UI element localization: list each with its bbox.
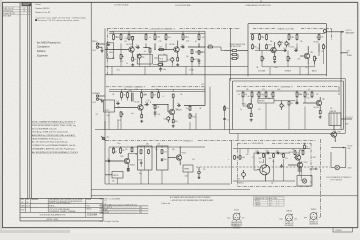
svg-text:Supreme: Supreme [37, 53, 48, 57]
wire link to mixer [214, 47, 224, 51]
potentiometer VR6 [120, 111, 124, 117]
capacitor C9a [107, 158, 111, 162]
svg-text:BC149: BC149 [135, 102, 140, 104]
drawing number strip bottom right [333, 228, 352, 232]
svg-text:TR3: TR3 [268, 45, 271, 47]
svg-text:22k: 22k [180, 94, 183, 96]
wire depth box drop [117, 178, 119, 184]
svg-text:8µ: 8µ [177, 103, 179, 105]
svg-text:8µ: 8µ [181, 44, 183, 46]
transistor TR2 [173, 46, 183, 53]
svg-text:ERITH · KENT: ERITH · KENT [47, 219, 60, 221]
wire channel1 supply drop [204, 31, 206, 87]
wire supreme outer box link down [237, 134, 239, 141]
svg-text:22k: 22k [316, 94, 319, 96]
transistor TR5 [137, 104, 147, 111]
svg-text:470: 470 [258, 109, 261, 111]
svg-text:SUPREME ③: SUPREME ③ [281, 86, 293, 89]
revision column marks [23, 7, 30, 13]
junction dots supreme [252, 91, 313, 92]
resistor R40 [311, 91, 313, 98]
wire TR4 emitter to rail [307, 64, 309, 75]
wire TR5 collector [141, 99, 143, 104]
svg-text:BC149: BC149 [170, 44, 175, 46]
capacitor C5 [294, 48, 298, 52]
wire TR3 collector [274, 42, 276, 46]
footswitch loop wire [331, 147, 346, 168]
svg-text:O/P ②: O/P ② [201, 83, 206, 86]
feedback network box channel1 [159, 55, 168, 61]
svg-text:25µ: 25µ [107, 137, 110, 139]
svg-text:CH 1: CH 1 [92, 50, 96, 52]
resistor R50 [294, 150, 299, 155]
svg-text:TR4: TR4 [310, 52, 313, 54]
wire osc feedback b [254, 169, 257, 171]
voltage table [99, 206, 148, 214]
notes line 9 [32, 147, 75, 150]
transistor legend table [254, 197, 285, 207]
wire lamp to zener [298, 171, 300, 176]
wire mixer feed [224, 50, 231, 52]
resistor R8 [198, 34, 200, 41]
svg-text:ORGAN/AMPL, AMPLIFIC other B5.: ORGAN/AMPL, AMPLIFIC other B5. Plug B5 p… [32, 147, 75, 150]
svg-text:MRB SW: MRB SW [330, 111, 337, 113]
svg-text:2.2k: 2.2k [159, 41, 162, 43]
resistor R2 [120, 34, 122, 41]
svg-text:50µ: 50µ [107, 115, 110, 117]
resistor R34 [189, 106, 191, 111]
svg-text:TR11: TR11 [259, 162, 263, 164]
wire supreme drops extra [266, 103, 305, 130]
capacitor C7a on drop [154, 113, 160, 117]
svg-text:22k: 22k [306, 94, 309, 96]
title block material cell [31, 198, 38, 204]
svg-text:47k: 47k [290, 103, 293, 105]
svg-text:the M60 Preamp for: the M60 Preamp for [37, 40, 61, 44]
svg-text:470k: 470k [116, 37, 120, 39]
resistor R11 [149, 48, 151, 53]
pinout diagram 2N3702 [280, 210, 298, 226]
svg-text:BC149: BC149 [234, 209, 239, 211]
capacitor C9b in box1 [140, 159, 142, 167]
capacitor C3b right stack [198, 59, 201, 67]
svg-text:DRN: DRN [21, 199, 24, 201]
svg-text:NORMAL: NORMAL [92, 92, 100, 95]
notes line 6 [32, 137, 63, 140]
svg-text:22k: 22k [158, 144, 161, 146]
wire pot feeds stage2 [262, 51, 315, 65]
wire R11 bottom drop [149, 53, 151, 66]
svg-text:3.9k: 3.9k [125, 38, 128, 40]
svg-text:Resistors ¼W 5% unless otherwi: Resistors ¼W 5% unless otherwise stated [38, 19, 79, 22]
resistor R43 [120, 147, 125, 154]
resistor R8a sym [157, 62, 163, 65]
resistor R33 [172, 119, 177, 123]
svg-text:VOX SOUND EQUIPMENT LTD: VOX SOUND EQUIPMENT LTD [40, 215, 66, 217]
svg-text:0.05: 0.05 [283, 48, 286, 50]
switch relay box [329, 111, 341, 126]
svg-text:CONNECTOR, to EXTERNAL PREAMPS: CONNECTOR, to EXTERNAL PREAMPS, Link B5 [32, 144, 75, 147]
revision strip column line C [29, 2, 31, 198]
svg-text:0.5: 0.5 [144, 51, 146, 53]
output arrow row3 [310, 166, 318, 170]
label supreme values [247, 96, 319, 110]
svg-text:47k: 47k [330, 108, 333, 110]
svg-text:560: 560 [175, 121, 178, 123]
ground [101, 100, 104, 103]
ground [250, 119, 253, 122]
svg-text:base: base [280, 219, 283, 221]
capacitor C2a bypass [138, 54, 144, 61]
notes line 5 [32, 134, 76, 137]
volume module box channel1 [137, 54, 152, 64]
svg-text:2N3702: 2N3702 [238, 182, 244, 184]
label tremolo values [115, 144, 161, 154]
ground [101, 50, 104, 53]
svg-text:b c e: b c e [269, 200, 272, 202]
supreme dashed boundary [237, 87, 339, 95]
svg-text:25k: 25k [112, 181, 115, 183]
svg-text:OSCILLATOR: OSCILLATOR [252, 142, 264, 145]
wire supply links channel2 [122, 89, 174, 91]
output label O/P [346, 30, 356, 34]
resistor R51 [302, 150, 304, 155]
wire tremolo rail left link [108, 147, 110, 184]
svg-text:10k: 10k [168, 37, 171, 39]
transistor TR6a sym [242, 102, 253, 109]
resistor R39 [304, 91, 309, 98]
svg-text:VIEWED ON: VIEWED ON [309, 221, 318, 223]
revision table header cell [22, 3, 32, 6]
wire relay down [333, 126, 335, 131]
resistor R51a sym [234, 155, 240, 160]
wire speed box drop [187, 172, 189, 184]
svg-text:8µ: 8µ [281, 42, 283, 44]
svg-text:BRILL: BRILL [92, 41, 97, 43]
wire pot bottoms to rail stage2 [262, 61, 315, 75]
svg-text:O/P: O/P [311, 166, 314, 168]
resistor R5 [154, 34, 160, 41]
svg-text:BC149: BC149 [314, 42, 319, 44]
wire TR9 collector to box1 [128, 153, 137, 155]
svg-text:① MOUNTING FOR STANDARDISED PR: ① MOUNTING FOR STANDARDISED PRE AMP BOAR… [170, 199, 214, 202]
title block copyright text [49, 198, 83, 204]
supply rail stage 2 [250, 33, 325, 35]
capacitor C4b electrolytic [285, 41, 288, 47]
svg-text:DEFIANT CHANNEL ②: DEFIANT CHANNEL ② [125, 86, 146, 89]
supreme box outline [233, 81, 344, 130]
tremolo assembly box 1 [138, 146, 153, 170]
svg-text:DO NOT SCALE: DO NOT SCALE [114, 4, 129, 7]
svg-text:TR9: TR9 [120, 156, 123, 158]
svg-text:0.1: 0.1 [252, 157, 254, 159]
wire TR12 base [288, 164, 296, 166]
svg-text:TO FOOT: TO FOOT [346, 117, 353, 119]
oscillator wire top [254, 152, 290, 154]
output node circle [323, 30, 326, 33]
resistor R10 [132, 57, 136, 62]
revision table row lines [2, 7, 31, 15]
wire VR1 bottom to ground rail [120, 59, 122, 67]
supreme outer box outline [230, 79, 346, 134]
svg-text:56k: 56k [124, 41, 127, 43]
voltage table row 2 [101, 209, 143, 212]
wire base TR5 [115, 107, 137, 109]
wire supreme coupling [274, 100, 295, 102]
ground [140, 120, 143, 123]
transistor TR12 [296, 161, 307, 168]
svg-text:100k: 100k [241, 157, 245, 159]
svg-text:0.5: 0.5 [308, 89, 310, 91]
resistor R48 [273, 153, 275, 158]
capacitor C8 [177, 103, 181, 107]
revision strip column line D [30, 2, 32, 198]
wire TR1 collector [132, 41, 134, 46]
capacitor C3a emitter bypass [167, 57, 174, 63]
supply bus upper channel 1 [109, 30, 205, 32]
notes line 10 [32, 151, 79, 154]
svg-text:1k: 1k [256, 94, 258, 96]
schematic bottom border [91, 189, 250, 191]
svg-text:N.F.B: N.F.B [159, 58, 163, 60]
svg-text:J1: J1 [108, 56, 110, 58]
transistor TR7 [315, 99, 325, 107]
resistor R50b sym [304, 145, 308, 150]
svg-text:With 1% diode X-tal filter: With 1% diode X-tal filter [99, 220, 119, 223]
resistor R35a [242, 91, 247, 98]
wire stage2 coupling [255, 50, 283, 52]
wire supreme inner drops [243, 98, 305, 106]
resistor R32 [172, 94, 174, 98]
svg-text:10k: 10k [268, 98, 271, 100]
svg-text:CH 2: CH 2 [92, 102, 96, 104]
oscillator dashed boundary [238, 143, 312, 186]
svg-text:1k: 1k [325, 47, 327, 49]
resistor R26 [127, 92, 129, 99]
revision strip column line A [19, 2, 21, 198]
wire depth box left [105, 174, 112, 176]
transistor TR10 [175, 153, 186, 162]
wire box2 drop to bottom rail [161, 170, 163, 184]
resistor R36a sym [250, 113, 252, 117]
svg-text:CONQUEROR CHANNEL ①: CONQUEROR CHANNEL ① [150, 27, 176, 30]
supply rail channel 2 [109, 91, 205, 93]
capacitor C1 [107, 42, 111, 46]
svg-text:3.9k: 3.9k [144, 94, 147, 96]
svg-text:47k: 47k [202, 37, 205, 39]
wire base TR4 [300, 55, 303, 57]
resistor R3 [128, 34, 134, 41]
wire output bus vertical [340, 32, 342, 130]
resistor R16 [231, 54, 238, 56]
svg-text:56k: 56k [270, 41, 273, 43]
svg-text:100µ: 100µ [117, 143, 121, 145]
svg-text:150k: 150k [268, 158, 272, 160]
resistor R27 [141, 92, 147, 99]
label osc rail values [256, 150, 288, 160]
svg-text:220k: 220k [208, 45, 212, 47]
ground [176, 63, 179, 66]
svg-text:0.1: 0.1 [276, 150, 278, 152]
wire TR9 collector [127, 154, 129, 158]
wire drops channel2 [118, 101, 190, 129]
resistor R14 [191, 49, 193, 54]
svg-text:SW: SW [346, 124, 349, 126]
resistor R19 [259, 34, 264, 41]
input network box channel1 [107, 43, 114, 59]
svg-text:TREMOLO: TREMOLO [183, 141, 193, 143]
voltage table row 1 [101, 207, 143, 209]
svg-text:WITHOUT WRITTEN PERMISSION: WITHOUT WRITTEN PERMISSION [49, 202, 71, 204]
wire resistor drops to rail [264, 159, 302, 181]
oscillator left components [228, 155, 240, 161]
depth control box [112, 172, 123, 179]
svg-text:47k: 47k [244, 94, 247, 96]
capacitor C12 [266, 150, 270, 154]
svg-text:2N3702: 2N3702 [286, 210, 292, 212]
supply rail channel 1 [109, 33, 205, 35]
wire base TR9 [105, 160, 123, 162]
svg-text:0.1: 0.1 [266, 150, 268, 152]
wire TR10 base [168, 157, 175, 159]
wire osc feedback [253, 153, 255, 170]
svg-text:250k: 250k [274, 67, 278, 69]
svg-text:56k: 56k [156, 89, 159, 91]
svg-text:Acc. B5. Earthed 'B' Strap to: Acc. B5. Earthed 'B' Strap to back B5 ta… [32, 141, 67, 144]
capacitor C11 [256, 150, 260, 154]
scan shading left edge [0, 0, 2, 233]
wire coupling TR5-TR6 [152, 104, 168, 106]
svg-text:680k: 680k [109, 52, 113, 54]
svg-text:1k: 1k [306, 147, 308, 149]
junction dots stage2 [259, 33, 298, 51]
resistor R31 [154, 105, 159, 110]
capacitor C2b on rail [159, 67, 162, 72]
svg-text:10k: 10k [246, 154, 249, 156]
svg-text:SPEED: SPEED [184, 169, 190, 171]
svg-text:d g s: d g s [269, 205, 273, 207]
resistor R4 [145, 34, 147, 41]
svg-text:22k: 22k [271, 183, 274, 185]
transistor TR3 [268, 45, 276, 54]
svg-text:DRG No: DRG No [86, 209, 91, 211]
ground rail channel 2 [95, 129, 343, 131]
ground tremolo [198, 167, 201, 176]
svg-text:1.5k: 1.5k [247, 96, 250, 98]
svg-text:CHD: CHD [26, 199, 29, 201]
wire base TR6 [167, 105, 169, 113]
svg-text:UNDERSIDE: UNDERSIDE [309, 223, 318, 225]
wire TR4 emitter [307, 60, 309, 64]
wire R31 bottom drop [154, 110, 156, 113]
resistor R18 [252, 34, 254, 41]
wire TR2 emitter [177, 53, 179, 57]
supreme rail [236, 90, 340, 92]
wire TR12 emitter [300, 169, 302, 172]
wire TR4 collector [307, 46, 309, 52]
svg-text:10µ: 10µ [136, 45, 139, 47]
svg-text:2.2k: 2.2k [307, 98, 310, 100]
label stage2 values row [257, 42, 319, 61]
ground [198, 176, 201, 179]
svg-text:150k: 150k [236, 157, 240, 159]
transistor TR4 [303, 52, 313, 60]
svg-text:INPUT: INPUT [105, 110, 110, 112]
notes line 4 [32, 131, 68, 134]
wire output to main amp [327, 31, 345, 33]
resistor R38a sym [288, 101, 293, 106]
label channel2 values [147, 100, 182, 113]
resistor R12 [158, 49, 165, 51]
input assembly box [104, 100, 115, 112]
wire channel2 output [184, 105, 205, 107]
potentiometer VR5 [314, 56, 318, 62]
capacitor C6a [116, 101, 120, 105]
revision strip column line B [27, 2, 29, 198]
svg-text:Number C.no 30: Number C.no 30 [35, 12, 51, 14]
separator dash-dot vertical [320, 139, 322, 217]
wire channel 1 output [188, 46, 205, 48]
resistor R9 [132, 36, 134, 41]
capacitor C4a electrolytic [278, 41, 283, 47]
svg-text:50µ: 50µ [139, 173, 142, 175]
capacitor C13 [276, 150, 280, 154]
wire C2a to ground rail [139, 61, 141, 67]
svg-text:0.1: 0.1 [107, 42, 109, 44]
resistor R24 [274, 56, 276, 60]
svg-text:10k: 10k [159, 47, 162, 49]
svg-text:0.04: 0.04 [135, 89, 138, 91]
resistor R17a sym [207, 45, 214, 48]
svg-text:TREBLE: TREBLE [285, 71, 292, 73]
svg-text:150k: 150k [280, 154, 284, 156]
frame tick mark top [260, 0, 262, 2]
wire interstage vertical [230, 28, 232, 81]
svg-text:OS/084: OS/084 [87, 212, 98, 216]
svg-text:0.1: 0.1 [227, 119, 229, 121]
wire channel2 output column [209, 87, 211, 130]
diode D2 [280, 164, 282, 168]
ground rail channel 1 upper [105, 66, 248, 68]
stage 2 tone box outline [248, 24, 327, 76]
potentiometer VR2 [191, 57, 195, 63]
svg-text:1.2k: 1.2k [186, 41, 189, 43]
resistor R1 [113, 34, 118, 41]
ground rail tremolo [233, 180, 295, 182]
resistor R30 [141, 114, 143, 118]
resistor R35 [251, 91, 253, 98]
capacitor C2 [136, 45, 140, 49]
wire tone network bus [262, 66, 315, 68]
junction dots tremolo [120, 147, 181, 148]
svg-text:base: base [227, 218, 230, 220]
svg-text:0.1: 0.1 [149, 37, 151, 39]
wire TR2 collector [177, 41, 179, 46]
resistor R47 [263, 153, 265, 158]
svg-text:10k: 10k [138, 160, 141, 162]
notes line 3 [32, 127, 57, 130]
svg-text:0.1: 0.1 [262, 96, 264, 98]
capacitor C7 [145, 102, 149, 106]
transistor TR8 sym [330, 131, 340, 138]
svg-text:VOLUME: VOLUME [258, 71, 266, 73]
wire feedback run [153, 64, 157, 66]
notes line 8 [32, 144, 75, 147]
tremolo input jack [101, 136, 106, 141]
svg-text:25µ: 25µ [164, 159, 167, 161]
svg-text:33k: 33k [300, 41, 303, 43]
footswitch label [348, 146, 354, 151]
